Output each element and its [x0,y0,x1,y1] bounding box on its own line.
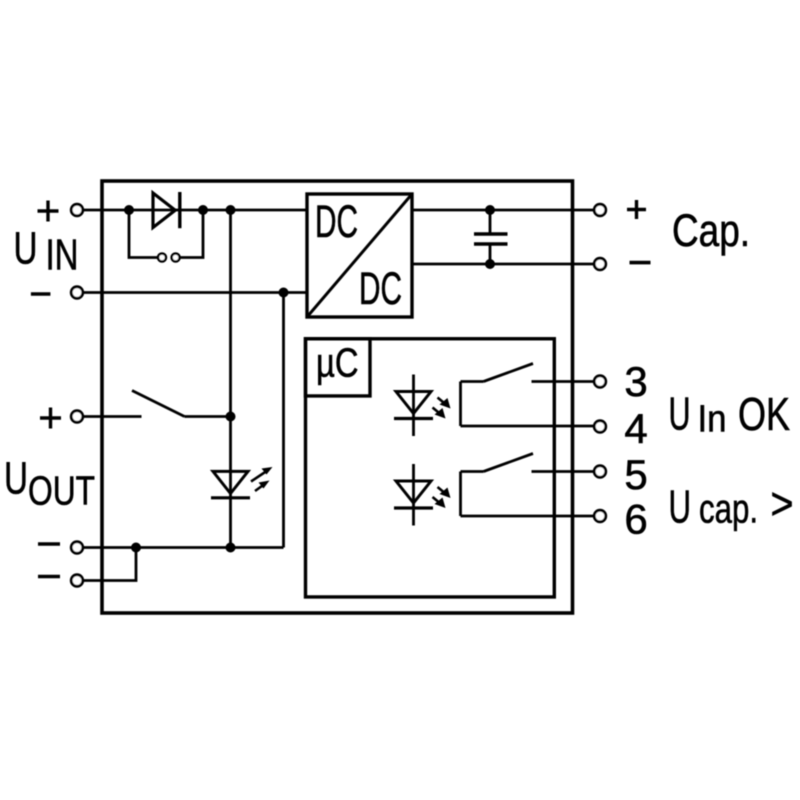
svg-text:OUT: OUT [28,468,95,514]
LED K2 indicator [394,464,451,526]
label - U_OUT 1 [38,542,60,546]
node dot U_IN+ / vertical drop [226,205,236,215]
svg-text:OK: OK [738,388,790,440]
svg-text:IN: IN [46,231,79,280]
node dot switch / drop [226,412,236,422]
label - U_OUT 2 [38,575,60,579]
wire vertical drop from U_IN+ node [229,210,232,548]
label U cap. > [669,478,794,533]
svg-text:DC: DC [359,263,402,314]
terminal U_OUT- 1 [71,542,83,554]
microcontroller box U2 [306,339,371,396]
label - U_IN [31,292,51,296]
terminal U_IN+ [71,204,83,216]
wire switch to drop node [185,415,231,418]
node dot minus jog [131,543,141,553]
terminal 5 [594,466,606,478]
wire second minus terminal jog [84,548,137,581]
svg-text:3: 3 [624,358,647,405]
svg-text:In: In [698,399,727,441]
node dot capacitor top [485,205,495,215]
LED K1 indicator [394,375,451,437]
svg-text:5: 5 [624,451,647,498]
terminal 6 [594,510,606,522]
wire DC/DC output - rail [412,263,594,266]
svg-text:µC: µC [316,340,359,386]
relay contact K1 [461,364,594,427]
svg-text:U: U [669,481,692,533]
DC/DC converter box U1 [307,194,412,317]
wire U_IN- rail [84,291,308,294]
outer enclosure box [102,181,573,613]
node dot diode cathode [198,205,208,215]
node dot capacitor bottom [485,259,495,269]
bypass jumper loop with plug contacts [129,210,203,262]
wire U_OUT+ stub [84,415,142,418]
node dot U_IN+ / diode anode [124,205,134,215]
wire bottom U_OUT- [84,546,284,549]
terminal Cap+ [594,204,606,216]
switch S1 blade [132,391,185,417]
svg-text:>: > [771,478,794,529]
label U In OK [669,388,791,441]
diode D1 [153,192,180,228]
label + U_OUT [40,408,61,429]
inner relay/logic box [306,339,555,597]
wire U_IN+ rail [84,209,308,212]
wire vertical drop from U_IN- node [282,293,285,548]
svg-text:Cap.: Cap. [672,205,750,256]
label - Cap [630,261,651,265]
svg-text:U: U [4,453,28,504]
terminal 3 [594,376,606,388]
terminal U_OUT+ [71,411,83,423]
svg-text:cap.: cap. [699,486,758,532]
label + U_IN [38,201,59,222]
svg-text:DC: DC [315,196,358,247]
label U_IN [14,223,79,280]
terminal 4 [594,421,606,433]
terminal Cap- [594,258,606,270]
label U_OUT [4,453,95,514]
node dot LED drop on bottom wire [226,543,236,553]
LED U_OUT indicator [211,467,273,498]
terminal U_IN- [71,287,83,299]
svg-text:4: 4 [624,405,647,452]
wire DC/DC output + rail [412,209,594,212]
svg-text:U: U [669,388,691,440]
svg-text:U: U [14,223,38,274]
node dot U_IN- / vertical drop [279,288,289,298]
relay contact K2 [461,454,594,517]
label + Cap [627,200,646,219]
terminal U_OUT- 2 [71,575,83,587]
svg-text:6: 6 [624,496,647,543]
capacitor C1 [474,210,508,264]
